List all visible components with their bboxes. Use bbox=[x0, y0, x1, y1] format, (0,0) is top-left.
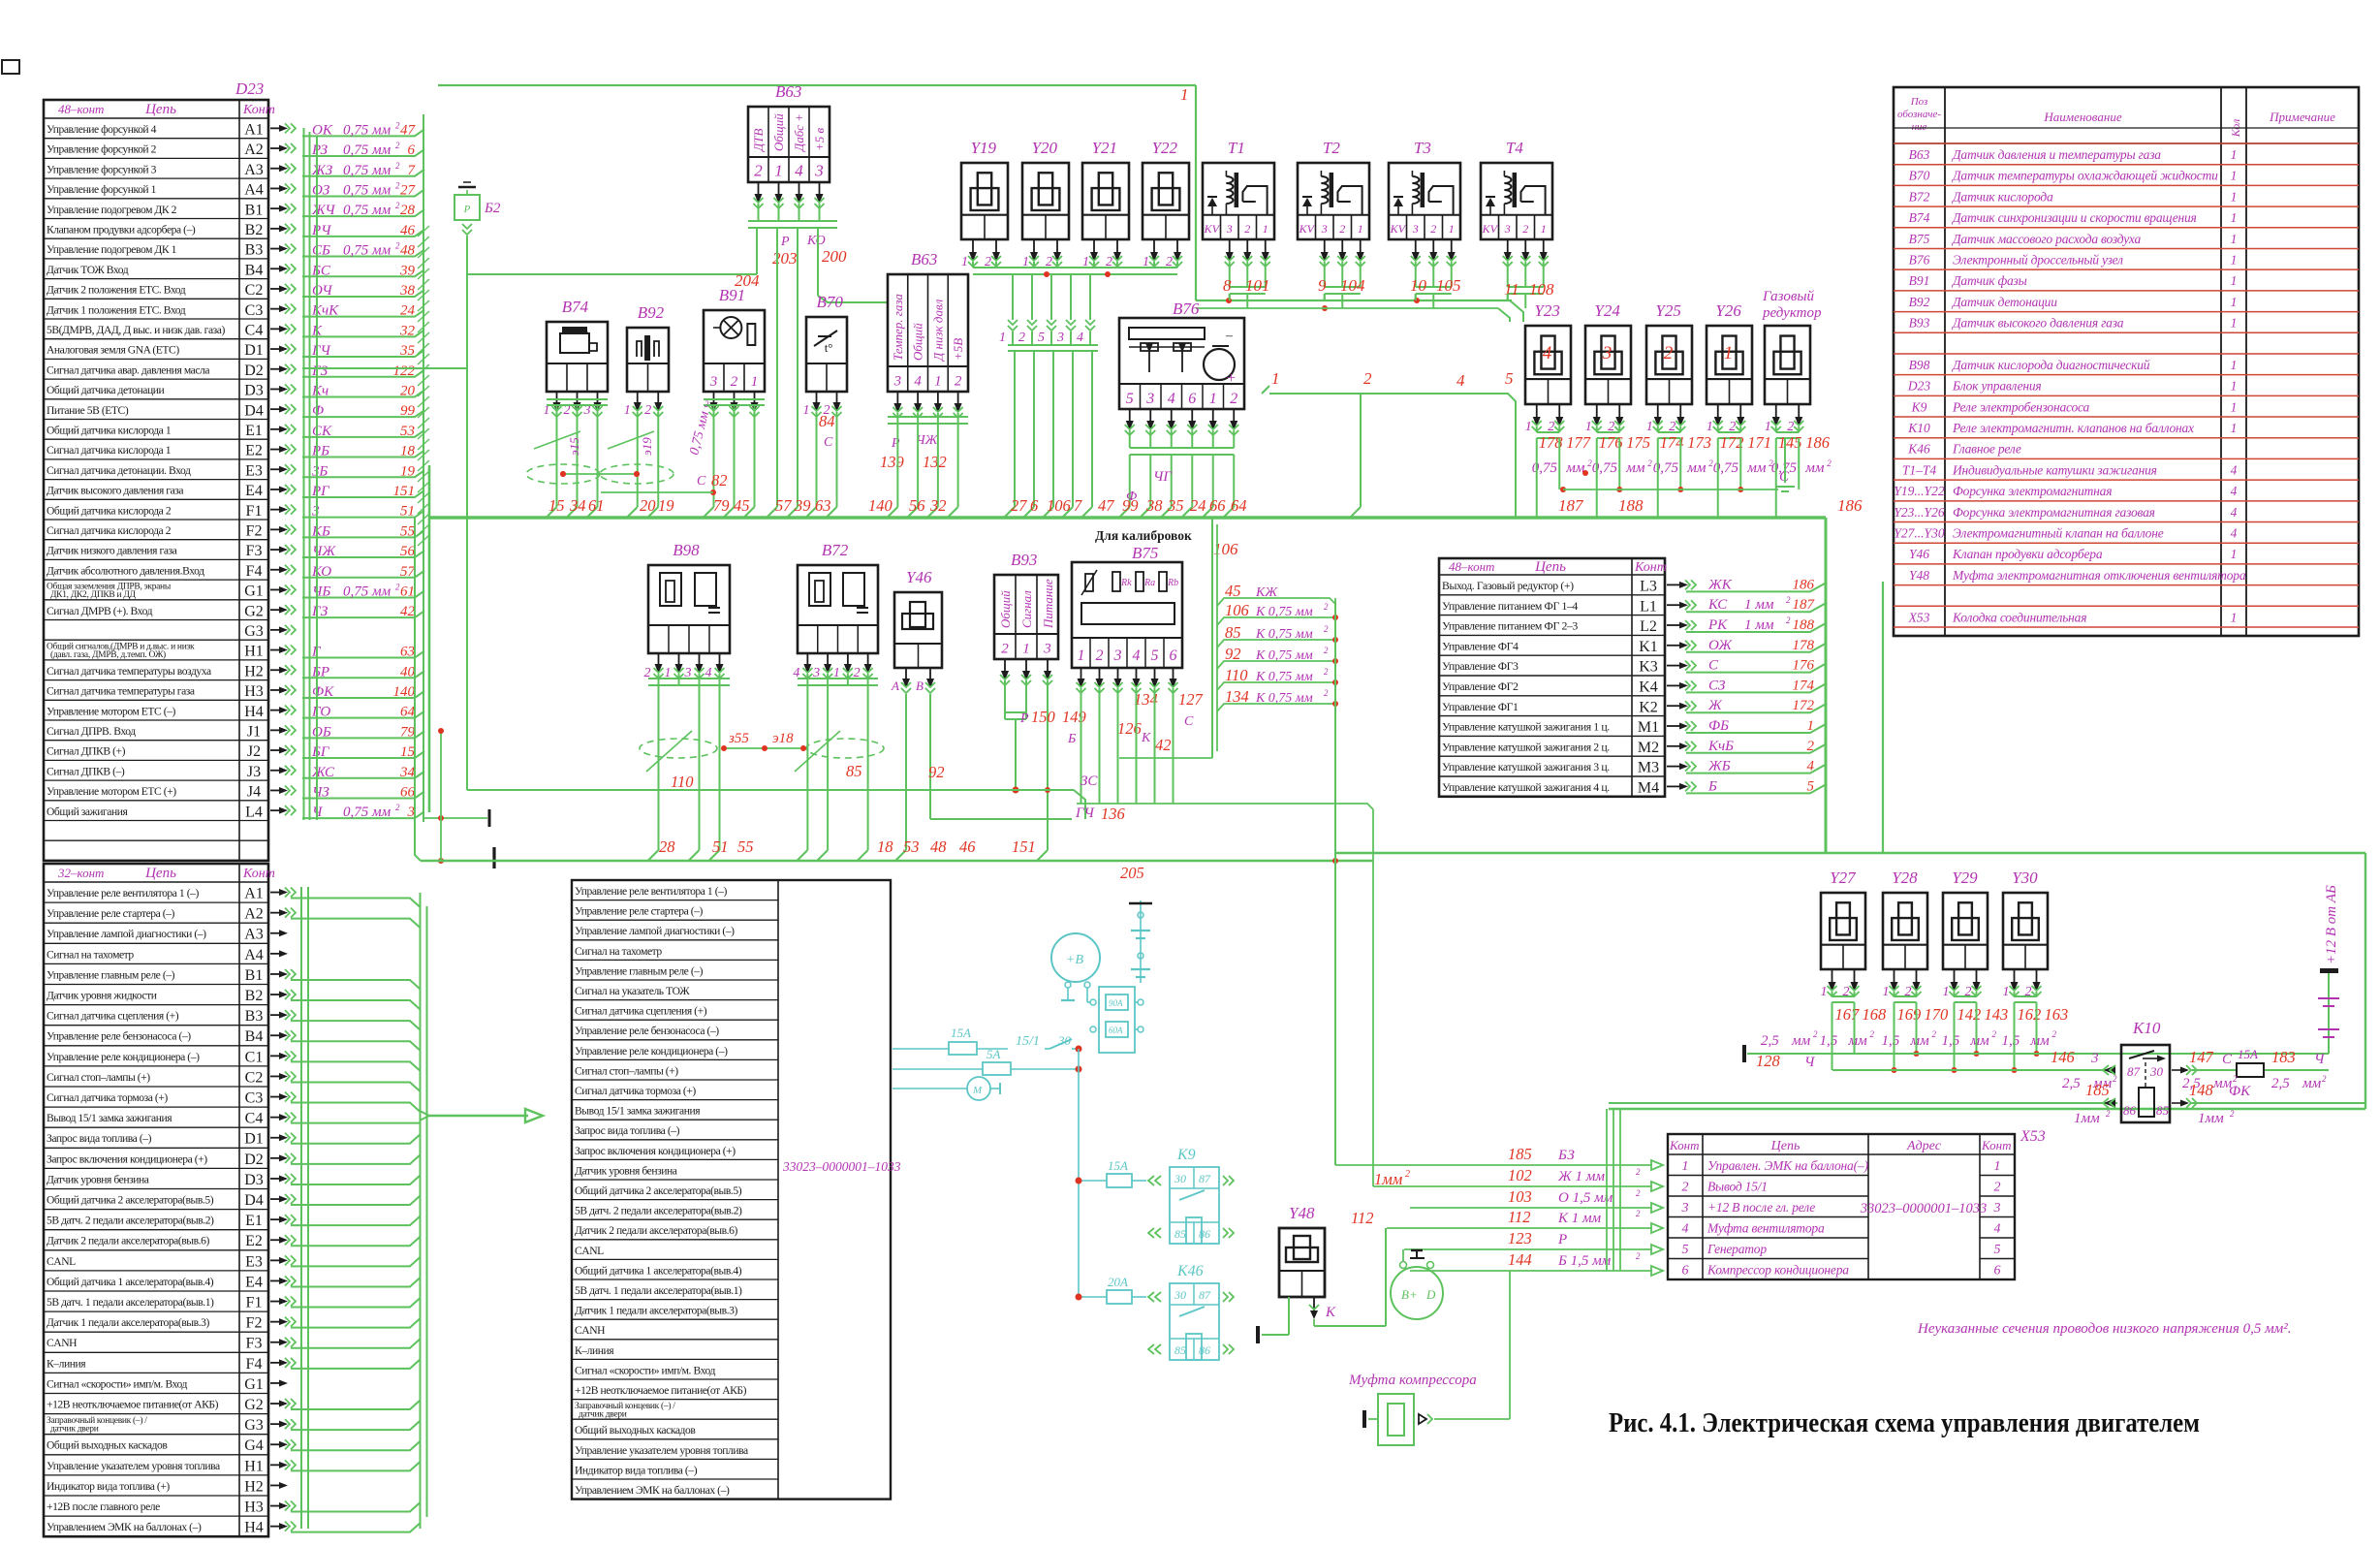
svg-text:1: 1 bbox=[774, 162, 783, 180]
svg-text:+12 В после гл. реле: +12 В после гл. реле bbox=[1707, 1200, 1815, 1215]
svg-text:ЧЗ: ЧЗ bbox=[312, 784, 329, 800]
svg-text:178: 178 bbox=[1793, 638, 1815, 653]
svg-text:Индивидуальные катушки зажиган: Индивидуальные катушки зажигания bbox=[1952, 462, 2157, 477]
svg-text:Муфта компрессора: Муфта компрессора bbox=[1348, 1373, 1477, 1388]
svg-text:1: 1 bbox=[1646, 420, 1653, 434]
svg-text:–: – bbox=[1225, 329, 1234, 343]
svg-text:2,5: 2,5 bbox=[2062, 1076, 2081, 1091]
svg-text:1: 1 bbox=[1707, 420, 1713, 434]
svg-text:Управление реле вентилятора 1: Управление реле вентилятора 1 (–) bbox=[47, 887, 199, 900]
svg-text:Газовый: Газовый bbox=[1762, 289, 1814, 304]
svg-text:РБ: РБ bbox=[311, 444, 329, 459]
svg-text:Y26: Y26 bbox=[1715, 301, 1741, 320]
svg-text:Б2: Б2 bbox=[484, 201, 501, 216]
svg-text:127: 127 bbox=[1178, 690, 1204, 709]
svg-text:48–конт: 48–конт bbox=[58, 102, 104, 116]
svg-text:2: 2 bbox=[1932, 1029, 1937, 1039]
svg-text:Датчик фазы: Датчик фазы bbox=[1951, 273, 2027, 288]
svg-text:КО: КО bbox=[806, 234, 826, 248]
svg-text:Управление мотором ЕТС (–): Управление мотором ЕТС (–) bbox=[47, 705, 176, 717]
svg-text:1: 1 bbox=[2231, 295, 2238, 309]
svg-text:Управлен. ЭМК на баллона(–): Управлен. ЭМК на баллона(–) bbox=[1707, 1158, 1868, 1173]
svg-text:Т1–Т4: Т1–Т4 bbox=[1902, 462, 1937, 477]
svg-text:H3: H3 bbox=[244, 683, 264, 700]
svg-text:66: 66 bbox=[1209, 496, 1226, 515]
svg-text:6: 6 bbox=[1170, 647, 1177, 664]
svg-text:Управление лампой диагностики: Управление лампой диагностики (–) bbox=[47, 928, 206, 940]
svg-text:42: 42 bbox=[1155, 736, 1172, 754]
svg-text:+: + bbox=[1227, 370, 1236, 387]
svg-text:57: 57 bbox=[775, 496, 792, 515]
svg-text:ФК: ФК bbox=[2229, 1084, 2251, 1099]
svg-text:Управление реле стартера (–): Управление реле стартера (–) bbox=[47, 907, 175, 920]
svg-text:B74: B74 bbox=[1909, 210, 1930, 225]
svg-text:Конт: Конт bbox=[1669, 1138, 1699, 1152]
svg-text:Управление катушкой зажигания: Управление катушкой зажигания 4 ц. bbox=[1442, 780, 1610, 794]
svg-text:К: К bbox=[1325, 1305, 1336, 1320]
svg-text:E4: E4 bbox=[245, 483, 263, 499]
svg-text:Управление реле кондиционера (: Управление реле кондиционера (–) bbox=[47, 1051, 200, 1063]
svg-text:J4: J4 bbox=[247, 784, 261, 801]
svg-text:ОЧ: ОЧ bbox=[312, 283, 333, 299]
svg-text:1: 1 bbox=[1943, 985, 1950, 999]
svg-text:A1: A1 bbox=[244, 886, 264, 902]
svg-text:Управление реле кондиционера (: Управление реле кондиционера (–) bbox=[575, 1045, 728, 1058]
svg-text:Общий датчика 1 акселератора(в: Общий датчика 1 акселератора(выв.4) bbox=[47, 1276, 214, 1288]
svg-text:2: 2 bbox=[644, 403, 651, 418]
svg-text:2: 2 bbox=[1807, 739, 1815, 754]
svg-text:обозначе-: обозначе- bbox=[1897, 109, 1941, 120]
svg-text:2: 2 bbox=[731, 374, 738, 390]
svg-text:38: 38 bbox=[399, 283, 416, 299]
svg-text:Сигнал датчика кислорода 1: Сигнал датчика кислорода 1 bbox=[47, 444, 172, 457]
svg-text:B1: B1 bbox=[245, 967, 264, 984]
svg-text:30: 30 bbox=[1057, 1033, 1072, 1048]
svg-text:Т3: Т3 bbox=[1414, 139, 1431, 157]
svg-text:Rk: Rk bbox=[1120, 578, 1132, 588]
svg-text:186: 186 bbox=[1837, 496, 1863, 515]
svg-text:Общий выходных каскадов: Общий выходных каскадов bbox=[575, 1424, 696, 1436]
svg-text:169: 169 bbox=[1897, 1005, 1922, 1024]
svg-text:Y19: Y19 bbox=[971, 139, 997, 157]
svg-text:3: 3 bbox=[1504, 222, 1511, 236]
svg-text:Реле электробензонасоса: Реле электробензонасоса bbox=[1952, 399, 2089, 414]
svg-text:30: 30 bbox=[2149, 1064, 2164, 1079]
svg-text:ГЧ: ГЧ bbox=[311, 343, 332, 359]
svg-text:ОБ: ОБ bbox=[312, 724, 331, 740]
svg-text:92: 92 bbox=[928, 763, 945, 781]
svg-text:136: 136 bbox=[1101, 805, 1126, 823]
svg-text:24: 24 bbox=[400, 303, 416, 319]
svg-text:Y46: Y46 bbox=[1909, 547, 1929, 561]
svg-text:Общий датчика 2 акселератора(в: Общий датчика 2 акселератора(выв.5) bbox=[575, 1184, 742, 1197]
svg-text:3: 3 bbox=[1602, 343, 1613, 363]
svg-text:Y48: Y48 bbox=[1289, 1204, 1315, 1222]
svg-text:C3: C3 bbox=[245, 302, 264, 319]
svg-text:Управление форсункой 3: Управление форсункой 3 bbox=[47, 163, 157, 175]
svg-text:B93: B93 bbox=[1909, 316, 1930, 331]
svg-text:CANL: CANL bbox=[575, 1245, 604, 1257]
svg-text:3: 3 bbox=[407, 805, 416, 820]
svg-text:40: 40 bbox=[400, 664, 416, 679]
svg-text:79: 79 bbox=[713, 496, 730, 515]
svg-text:B4: B4 bbox=[245, 1028, 264, 1045]
svg-text:Сигнал ДПРВ. Вход: Сигнал ДПРВ. Вход bbox=[47, 725, 136, 738]
svg-text:177: 177 bbox=[1566, 433, 1591, 452]
svg-text:1: 1 bbox=[2231, 316, 2238, 331]
svg-text:1: 1 bbox=[2231, 189, 2238, 204]
svg-text:1: 1 bbox=[2231, 169, 2238, 183]
svg-text:+В: +В bbox=[1066, 953, 1083, 967]
svg-text:мм: мм bbox=[1686, 460, 1707, 476]
svg-text:B76: B76 bbox=[1173, 300, 1200, 318]
svg-text:Датчик 1 педали акселератора(в: Датчик 1 педали акселератора(выв.3) bbox=[47, 1316, 209, 1329]
svg-text:1: 1 bbox=[2231, 610, 2238, 624]
svg-text:A3: A3 bbox=[244, 162, 264, 178]
svg-text:Т1: Т1 bbox=[1228, 139, 1245, 157]
svg-text:J3: J3 bbox=[247, 764, 261, 780]
svg-text:K10: K10 bbox=[2132, 1019, 2161, 1037]
svg-text:28: 28 bbox=[659, 837, 675, 856]
svg-text:E3: E3 bbox=[245, 462, 263, 479]
svg-text:C4: C4 bbox=[245, 1111, 264, 1127]
svg-text:Y27...Y30: Y27...Y30 bbox=[1894, 526, 1944, 541]
svg-text:мм: мм bbox=[1910, 1033, 1930, 1049]
svg-text:79: 79 bbox=[400, 724, 416, 740]
svg-text:ЖС: ЖС bbox=[311, 765, 335, 780]
svg-text:4: 4 bbox=[1456, 371, 1465, 390]
svg-text:0,75 мм: 0,75 мм bbox=[343, 243, 391, 259]
svg-text:168: 168 bbox=[1863, 1005, 1888, 1024]
svg-text:6: 6 bbox=[1030, 496, 1039, 515]
svg-text:46: 46 bbox=[959, 837, 976, 856]
svg-text:188: 188 bbox=[1618, 496, 1644, 515]
svg-text:39: 39 bbox=[399, 263, 416, 278]
svg-text:1мм: 1мм bbox=[2198, 1111, 2224, 1126]
svg-text:33023–0000001–1033: 33023–0000001–1033 bbox=[1860, 1201, 1988, 1216]
svg-text:2: 2 bbox=[1636, 1188, 1641, 1198]
svg-text:5: 5 bbox=[1682, 1243, 1689, 1257]
svg-text:Генератор: Генератор bbox=[1707, 1242, 1767, 1256]
svg-text:ГО: ГО bbox=[311, 705, 330, 720]
svg-text:85: 85 bbox=[2156, 1103, 2170, 1118]
svg-text:К–линия: К–линия bbox=[575, 1344, 614, 1357]
svg-text:РЗ: РЗ bbox=[311, 142, 329, 158]
svg-text:K10: K10 bbox=[1907, 421, 1930, 435]
svg-text:64: 64 bbox=[1231, 496, 1247, 515]
svg-text:M4: M4 bbox=[1638, 780, 1659, 797]
svg-text:F2: F2 bbox=[246, 1315, 263, 1332]
svg-text:Общий датчика 2 акселератора(в: Общий датчика 2 акселератора(выв.5) bbox=[47, 1194, 214, 1207]
svg-text:3: 3 bbox=[1043, 642, 1051, 657]
svg-text:Y46: Y46 bbox=[906, 568, 932, 586]
svg-text:Y29: Y29 bbox=[1952, 868, 1978, 887]
svg-text:5В датч. 1 педали акселератора: 5В датч. 1 педали акселератора(выв.1) bbox=[47, 1296, 214, 1309]
svg-text:CANH: CANH bbox=[47, 1337, 78, 1349]
svg-text:Датчик синхронизации и скорост: Датчик синхронизации и скорости вращения bbox=[1951, 210, 2197, 225]
svg-text:B91: B91 bbox=[1909, 273, 1930, 288]
svg-text:Сигнал датчика тормоза (+): Сигнал датчика тормоза (+) bbox=[575, 1085, 696, 1097]
svg-text:46: 46 bbox=[400, 223, 416, 238]
svg-text:1: 1 bbox=[2231, 421, 2238, 435]
svg-text:3: 3 bbox=[1321, 222, 1328, 236]
svg-text:15А: 15А bbox=[951, 1026, 971, 1040]
svg-text:18: 18 bbox=[400, 444, 416, 459]
svg-text:Управление ФГ3: Управление ФГ3 bbox=[1442, 659, 1519, 673]
svg-text:2: 2 bbox=[1682, 1181, 1689, 1195]
svg-text:мм: мм bbox=[1804, 460, 1825, 476]
svg-text:ЧЖ: ЧЖ bbox=[312, 544, 336, 559]
svg-text:Запрос вида топлива (–): Запрос вида топлива (–) bbox=[575, 1124, 680, 1137]
svg-text:3: 3 bbox=[2090, 1051, 2099, 1066]
svg-text:G3: G3 bbox=[244, 623, 264, 640]
svg-text:B72: B72 bbox=[822, 541, 849, 559]
svg-text:Общий: Общий bbox=[771, 113, 786, 151]
svg-text:18: 18 bbox=[877, 837, 893, 856]
svg-text:E3: E3 bbox=[245, 1253, 263, 1270]
svg-text:2: 2 bbox=[1324, 602, 1329, 612]
svg-text:A4: A4 bbox=[244, 182, 264, 199]
svg-text:О 1,5 мм: О 1,5 мм bbox=[1558, 1190, 1613, 1206]
svg-text:87: 87 bbox=[2127, 1064, 2141, 1079]
svg-text:Датчик 1 положения ЕТС. Вход: Датчик 1 положения ЕТС. Вход bbox=[47, 303, 186, 316]
svg-text:Р: Р bbox=[891, 436, 900, 451]
svg-text:Электромагнитный клапан на бал: Электромагнитный клапан на баллоне bbox=[1953, 526, 2164, 541]
svg-text:ЗБ: ЗБ bbox=[312, 463, 328, 479]
svg-text:87: 87 bbox=[1199, 1172, 1211, 1185]
svg-text:ОЗ: ОЗ bbox=[312, 182, 330, 198]
svg-text:30: 30 bbox=[1174, 1172, 1186, 1185]
svg-text:Цепь: Цепь bbox=[1770, 1139, 1801, 1153]
svg-text:7: 7 bbox=[1074, 496, 1082, 515]
svg-text:Общий датчика детонации: Общий датчика детонации bbox=[47, 384, 164, 396]
svg-text:К: К bbox=[1141, 731, 1151, 745]
svg-text:146: 146 bbox=[2051, 1048, 2076, 1066]
svg-text:Цепь: Цепь bbox=[144, 866, 176, 881]
svg-text:187: 187 bbox=[1793, 597, 1816, 613]
svg-text:2: 2 bbox=[2322, 1074, 2327, 1084]
svg-text:Вывод 15/1: Вывод 15/1 bbox=[1707, 1180, 1768, 1194]
svg-text:Поз: Поз bbox=[1910, 96, 1928, 108]
svg-text:ГЗ: ГЗ bbox=[311, 604, 329, 619]
svg-text:Темпер. газа: Темпер. газа bbox=[891, 294, 905, 361]
svg-text:РК: РК bbox=[1707, 617, 1728, 633]
svg-text:Датчик массового расхода возду: Датчик массового расхода воздуха bbox=[1951, 232, 2141, 246]
svg-text:Ч: Ч bbox=[2314, 1052, 2326, 1067]
svg-text:2: 2 bbox=[395, 141, 400, 150]
svg-text:20: 20 bbox=[640, 496, 656, 515]
svg-text:KV: KV bbox=[1204, 222, 1221, 236]
svg-text:2: 2 bbox=[1405, 1169, 1410, 1180]
svg-text:1: 1 bbox=[2231, 252, 2238, 267]
svg-text:Управление указателем уровня т: Управление указателем уровня топлива bbox=[575, 1444, 748, 1457]
svg-text:M2: M2 bbox=[1638, 740, 1659, 756]
svg-text:Сигнал датчика сцепления (+): Сигнал датчика сцепления (+) bbox=[575, 1005, 707, 1018]
svg-text:35: 35 bbox=[1167, 496, 1184, 515]
svg-text:9: 9 bbox=[1318, 276, 1327, 295]
svg-text:D4: D4 bbox=[244, 1192, 264, 1209]
svg-text:B2: B2 bbox=[245, 988, 264, 1004]
svg-text:КБ: КБ bbox=[311, 523, 330, 539]
svg-text:123: 123 bbox=[1508, 1229, 1532, 1247]
svg-text:3: 3 bbox=[1145, 391, 1154, 407]
svg-text:174: 174 bbox=[1793, 678, 1815, 693]
svg-text:H2: H2 bbox=[244, 1478, 264, 1495]
svg-text:Б: Б bbox=[1707, 778, 1717, 794]
svg-text:2: 2 bbox=[1324, 667, 1329, 677]
svg-text:ЖЧ: ЖЧ bbox=[311, 203, 336, 218]
svg-text:э15: э15 bbox=[567, 437, 581, 456]
svg-text:187: 187 bbox=[1558, 496, 1584, 515]
svg-text:Ra: Ra bbox=[1143, 578, 1155, 588]
svg-text:61: 61 bbox=[400, 584, 415, 599]
svg-text:0,75 мм: 0,75 мм bbox=[343, 142, 391, 158]
svg-text:А: А bbox=[891, 679, 899, 693]
svg-text:Аналоговая земля GNA (ЕТС): Аналоговая земля GNA (ЕТС) bbox=[47, 344, 179, 357]
svg-text:Общий зажигания: Общий зажигания bbox=[47, 805, 128, 818]
svg-text:ЖБ: ЖБ bbox=[1707, 759, 1731, 774]
svg-text:Б 1,5 мм: Б 1,5 мм bbox=[1557, 1253, 1612, 1269]
svg-text:D: D bbox=[1425, 1287, 1436, 1302]
svg-text:ние: ние bbox=[1912, 121, 1927, 133]
svg-text:Запрос вида топлива (–): Запрос вида топлива (–) bbox=[47, 1132, 152, 1145]
svg-text:85: 85 bbox=[1174, 1227, 1186, 1241]
svg-text:Общий датчика кислорода 2: Общий датчика кислорода 2 bbox=[47, 504, 172, 517]
svg-text:Y19...Y22: Y19...Y22 bbox=[1894, 484, 1944, 498]
svg-text:Y20: Y20 bbox=[1032, 139, 1058, 157]
svg-text:2: 2 bbox=[2230, 1109, 2235, 1119]
svg-text:M1: M1 bbox=[1638, 719, 1659, 736]
svg-text:Сигнал на тахометр: Сигнал на тахометр bbox=[575, 945, 662, 958]
svg-text:+12В после главного реле: +12В после главного реле bbox=[47, 1500, 160, 1513]
svg-text:Конт: Конт bbox=[242, 867, 275, 881]
svg-text:B70: B70 bbox=[1909, 169, 1930, 183]
svg-text:51: 51 bbox=[400, 504, 415, 520]
svg-text:B91: B91 bbox=[719, 286, 745, 304]
svg-text:E1: E1 bbox=[245, 423, 263, 439]
svg-text:48–конт: 48–конт bbox=[1449, 559, 1494, 574]
svg-text:132: 132 bbox=[923, 453, 947, 471]
svg-text:61: 61 bbox=[588, 496, 605, 515]
svg-text:Датчик температуры охлаждающей: Датчик температуры охлаждающей жидкости bbox=[1951, 169, 2218, 183]
svg-text:176: 176 bbox=[1793, 658, 1815, 674]
svg-text:С: С bbox=[697, 474, 706, 489]
svg-text:ДК1, ДК2, ДПКВ и ДД: ДК1, ДК2, ДПКВ и ДД bbox=[50, 590, 137, 600]
svg-text:4: 4 bbox=[1133, 647, 1141, 664]
svg-text:186: 186 bbox=[1793, 577, 1815, 592]
svg-text:2: 2 bbox=[824, 403, 830, 418]
svg-text:Датчик 2 педали акселератора(в: Датчик 2 педали акселератора(выв.6) bbox=[47, 1235, 209, 1247]
svg-text:147: 147 bbox=[2189, 1048, 2214, 1066]
svg-text:86: 86 bbox=[1199, 1343, 1210, 1357]
svg-text:CANH: CANH bbox=[575, 1324, 606, 1337]
svg-text:4: 4 bbox=[1807, 759, 1815, 774]
svg-text:1 мм: 1 мм bbox=[1744, 617, 1774, 633]
svg-text:J1: J1 bbox=[247, 724, 261, 741]
svg-text:мм: мм bbox=[1565, 460, 1585, 476]
svg-text:мм: мм bbox=[2030, 1033, 2051, 1049]
svg-text:105: 105 bbox=[1436, 276, 1461, 295]
svg-text:B92: B92 bbox=[638, 303, 665, 322]
svg-text:104: 104 bbox=[1340, 276, 1365, 295]
svg-text:B3: B3 bbox=[245, 242, 264, 259]
svg-text:Датчик давления и температуры: Датчик давления и температуры газа bbox=[1951, 147, 2161, 162]
svg-text:32: 32 bbox=[929, 496, 947, 515]
svg-text:+5 в: +5 в bbox=[812, 127, 827, 151]
svg-text:3: 3 bbox=[814, 162, 824, 180]
svg-text:С: С bbox=[824, 435, 833, 450]
svg-text:E4: E4 bbox=[245, 1274, 263, 1290]
svg-text:175: 175 bbox=[1626, 433, 1650, 452]
svg-text:47: 47 bbox=[1098, 496, 1114, 515]
svg-text:4: 4 bbox=[1994, 1222, 2001, 1237]
svg-text:183: 183 bbox=[2271, 1048, 2296, 1066]
svg-text:82: 82 bbox=[711, 471, 728, 489]
svg-text:ЧБ: ЧБ bbox=[312, 584, 330, 599]
svg-text:1: 1 bbox=[2231, 358, 2238, 372]
svg-text:20: 20 bbox=[400, 383, 416, 398]
svg-text:1: 1 bbox=[2231, 379, 2238, 394]
svg-text:датчик двери: датчик двери bbox=[579, 1410, 627, 1420]
svg-text:1: 1 bbox=[1541, 222, 1547, 236]
svg-text:Общий: Общий bbox=[998, 590, 1013, 628]
svg-text:К46: К46 bbox=[1176, 1263, 1204, 1279]
svg-text:Т4: Т4 bbox=[1506, 139, 1523, 157]
svg-text:1: 1 bbox=[2231, 210, 2238, 225]
svg-text:Управление форсункой 1: Управление форсункой 1 bbox=[47, 183, 157, 196]
svg-text:144: 144 bbox=[1508, 1250, 1532, 1269]
svg-text:мм: мм bbox=[1746, 460, 1767, 476]
svg-text:С: С bbox=[1708, 658, 1719, 674]
svg-text:Питание 5В (ЕТС): Питание 5В (ЕТС) bbox=[47, 404, 129, 417]
svg-text:1: 1 bbox=[2231, 399, 2238, 414]
svg-text:173: 173 bbox=[1687, 433, 1711, 452]
svg-text:F3: F3 bbox=[246, 543, 263, 559]
svg-text:Датчик 1 педали акселератора(в: Датчик 1 педали акселератора(выв.3) bbox=[575, 1305, 737, 1317]
svg-text:151: 151 bbox=[1012, 837, 1036, 856]
svg-text:Компрессор кондиционера: Компрессор кондиционера bbox=[1707, 1263, 1849, 1278]
svg-text:С: С bbox=[2222, 1052, 2233, 1067]
svg-text:Y23...Y26: Y23...Y26 bbox=[1894, 505, 1944, 520]
svg-text:E2: E2 bbox=[245, 1233, 263, 1249]
svg-text:B1: B1 bbox=[245, 202, 264, 218]
svg-text:A1: A1 bbox=[244, 122, 264, 139]
svg-text:A2: A2 bbox=[244, 142, 264, 158]
svg-text:B4: B4 bbox=[245, 262, 264, 278]
svg-text:B92: B92 bbox=[1909, 295, 1930, 309]
svg-text:Управление мотором ЕТС (+): Управление мотором ЕТС (+) bbox=[47, 785, 176, 798]
svg-text:1: 1 bbox=[1821, 985, 1828, 999]
svg-text:F1: F1 bbox=[246, 503, 263, 520]
svg-text:K9: K9 bbox=[1911, 399, 1927, 414]
svg-text:СБ: СБ bbox=[312, 243, 330, 259]
svg-text:B72: B72 bbox=[1909, 189, 1930, 204]
svg-text:Форсунка электромагнитная: Форсунка электромагнитная bbox=[1953, 484, 2112, 498]
svg-text:34: 34 bbox=[399, 765, 416, 780]
svg-text:2: 2 bbox=[1786, 595, 1791, 605]
svg-text:126: 126 bbox=[1117, 719, 1143, 738]
svg-text:185: 185 bbox=[2085, 1081, 2110, 1099]
svg-text:Общий датчика кислорода 1: Общий датчика кислорода 1 bbox=[47, 425, 172, 437]
svg-text:2: 2 bbox=[1324, 646, 1329, 655]
svg-text:Р: Р bbox=[1557, 1232, 1567, 1247]
svg-text:139: 139 bbox=[880, 453, 904, 471]
svg-text:В: В bbox=[916, 679, 924, 693]
svg-text:2: 2 bbox=[395, 803, 400, 812]
svg-text:2: 2 bbox=[1522, 222, 1528, 236]
svg-text:122: 122 bbox=[393, 363, 416, 379]
svg-text:Управление подогревом ДК 1: Управление подогревом ДК 1 bbox=[47, 243, 177, 256]
